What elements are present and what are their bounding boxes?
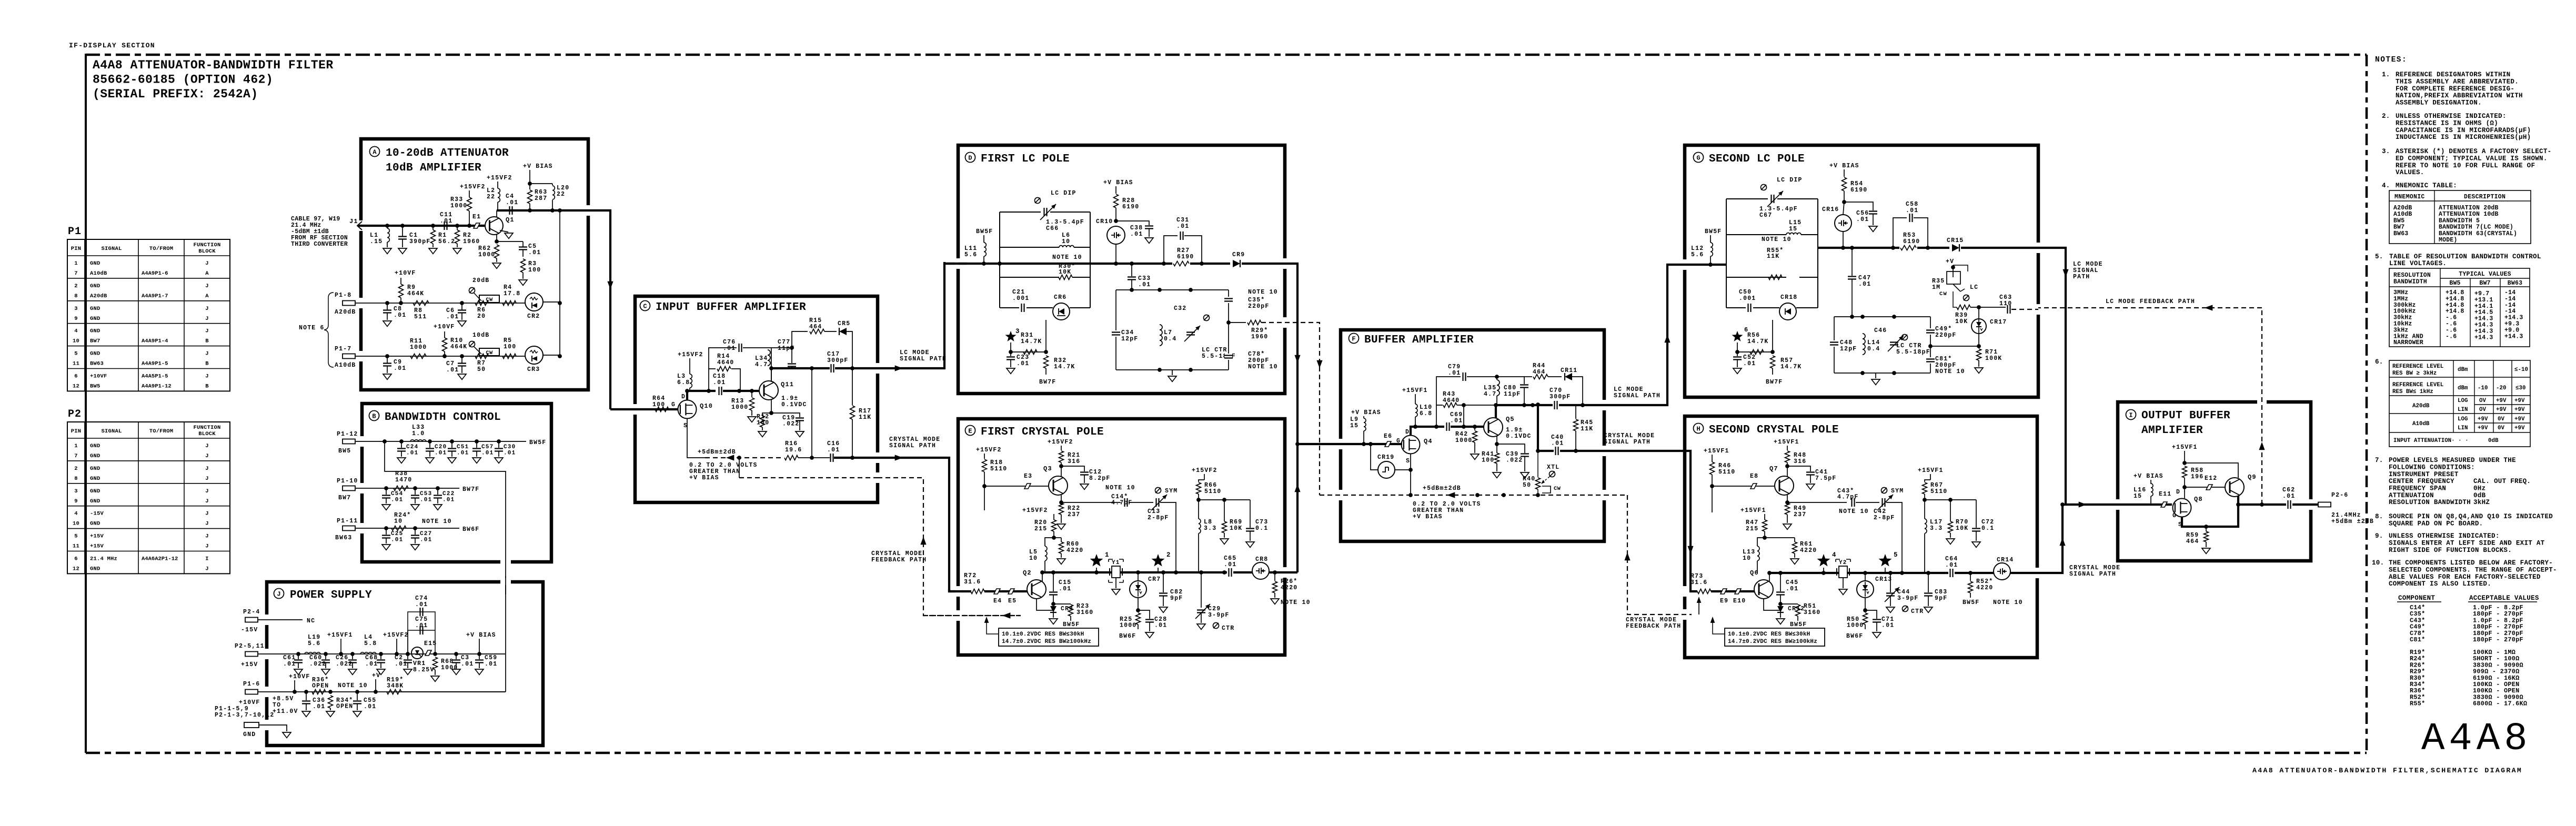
svg-text:9pF: 9pF <box>1935 595 1947 602</box>
svg-text:Y1: Y1 <box>1112 560 1120 566</box>
svg-text:.01: .01 <box>420 537 432 543</box>
diode CR15 <box>1949 244 1961 251</box>
svg-text:+9V: +9V <box>2496 398 2507 404</box>
resistor R67 <box>1930 474 1931 480</box>
capacitor C25 <box>384 526 388 530</box>
svg-text:4220: 4220 <box>1800 547 1817 554</box>
svg-text:GND: GND <box>90 316 100 322</box>
svg-text:100: 100 <box>757 420 769 427</box>
svg-text:.01: .01 <box>1450 418 1463 425</box>
svg-text:11K: 11K <box>1581 426 1593 432</box>
ground R2 <box>453 248 461 254</box>
svg-text:0.4: 0.4 <box>1867 346 1880 352</box>
svg-text:TABLE OF RESOLUTION BANDWIDTH: TABLE OF RESOLUTION BANDWIDTH CONTROL <box>2389 253 2541 260</box>
svg-text:1960: 1960 <box>1251 334 1268 340</box>
svg-text:-20: -20 <box>2496 385 2506 391</box>
dashed LC MODE FEEDBACK PATH <box>2038 307 2262 308</box>
capacitor C33 <box>1131 264 1132 276</box>
svg-text:NOTE 10: NOTE 10 <box>1248 364 1278 370</box>
svg-text:.01: .01 <box>481 450 494 457</box>
svg-text:+15VF2: +15VF2 <box>976 447 1002 454</box>
capacitor C21 <box>1022 304 1024 312</box>
svg-text:FOR COMPLETE REFERENCE DESIG-: FOR COMPLETE REFERENCE DESIG- <box>2396 85 2514 93</box>
Q10 source wire to feedback rail <box>687 419 705 458</box>
resistor R36* <box>312 690 326 694</box>
svg-text:.01: .01 <box>391 497 403 503</box>
function block I box <box>2118 402 2311 561</box>
svg-text:316: 316 <box>1794 458 1806 465</box>
inductor L20 <box>552 184 553 185</box>
svg-text:4640: 4640 <box>717 359 734 366</box>
wire BW63 row <box>356 528 459 529</box>
svg-text:BW63: BW63 <box>2393 230 2408 237</box>
capacitor C15 <box>1053 572 1054 591</box>
svg-text:J: J <box>205 566 209 572</box>
svg-text:P1-12: P1-12 <box>337 431 358 438</box>
svg-text:BW5: BW5 <box>2393 217 2404 224</box>
svg-text:J: J <box>205 328 209 335</box>
svg-text:10K: 10K <box>1230 525 1242 532</box>
svg-text:.01: .01 <box>457 450 469 457</box>
jumper E8 <box>1750 483 1757 489</box>
svg-text:J: J <box>205 453 209 459</box>
crystal tap vertical F <box>1537 405 1539 451</box>
svg-text:+15VF1: +15VF1 <box>2172 444 2198 451</box>
jumper E12 <box>2185 487 2225 488</box>
Q6 collector to line <box>1769 573 1770 581</box>
svg-text:SIGNAL PATH: SIGNAL PATH <box>1614 392 1661 399</box>
capacitor C64 series <box>1948 569 1955 577</box>
svg-text:FUNCTION: FUNCTION <box>193 242 220 248</box>
wire CR2 to bus <box>543 301 560 303</box>
block F title <box>1349 334 1359 344</box>
transistor Q9 <box>2225 478 2244 497</box>
svg-text:1000: 1000 <box>731 404 748 411</box>
potentiometer R7 <box>479 348 499 356</box>
value annotation box E <box>999 628 1099 646</box>
svg-text:SIGNAL: SIGNAL <box>101 246 122 252</box>
capacitor C2 <box>406 652 410 656</box>
svg-text:BANDWIDTH CONTROL: BANDWIDTH CONTROL <box>385 411 501 424</box>
wire LC path G to I <box>2038 248 2066 505</box>
jumpers E9 E10 <box>1711 590 1754 592</box>
capacitor C47 <box>1851 248 1853 276</box>
crystal exit rail F <box>1538 450 1604 452</box>
transistor Q8 FET <box>2173 499 2191 517</box>
svg-text:+14.3: +14.3 <box>2474 334 2493 341</box>
diode CR2 <box>525 293 543 311</box>
svg-text:SIGNALS ENTER AT LEFT SIDE AND: SIGNALS ENTER AT LEFT SIDE AND EXIT AT <box>2389 539 2545 547</box>
inductor L11 <box>983 235 984 243</box>
resistor R48 <box>1787 446 1788 450</box>
capacitor C40 series <box>1554 447 1560 455</box>
svg-text:5.6: 5.6 <box>964 251 977 258</box>
svg-text:11K: 11K <box>1767 253 1779 260</box>
wire crystal signal path C to E <box>878 458 963 591</box>
svg-text:PIN: PIN <box>71 428 82 435</box>
capacitor C59 <box>479 654 480 659</box>
svg-text:MNEMONIC: MNEMONIC <box>2394 194 2425 200</box>
svg-text:UNLESS OTHERWISE INDICATED:: UNLESS OTHERWISE INDICATED: <box>2389 532 2500 540</box>
svg-text:CR16: CR16 <box>1822 206 1839 213</box>
svg-text:LC DIP: LC DIP <box>1051 190 1076 197</box>
svg-text:LOG: LOG <box>2458 398 2468 404</box>
resistor R44 top rail <box>1524 376 1532 377</box>
svg-text:BW5F: BW5F <box>1063 621 1080 628</box>
block G title <box>1694 153 1704 163</box>
capacitor C80 <box>1495 375 1499 379</box>
inductor L17 <box>1924 500 1925 519</box>
wire R19 to bandwidth drop <box>401 691 506 692</box>
capacitor C70 series <box>1553 401 1559 409</box>
junction dots input line <box>385 224 389 228</box>
svg-text:.01: .01 <box>391 537 403 543</box>
capacitor C27 <box>413 526 417 530</box>
capacitor C55 <box>355 690 359 694</box>
svg-text:3-9pF: 3-9pF <box>1897 595 1919 602</box>
svg-text:-.6: -.6 <box>2446 333 2457 340</box>
block I title <box>2126 410 2136 420</box>
svg-text:0.1VDC: 0.1VDC <box>781 401 807 408</box>
wire crystal path into E redraw <box>949 589 971 591</box>
inductor L10 <box>1415 394 1416 404</box>
svg-text:464: 464 <box>2186 538 2199 545</box>
svg-text:THE COMPONENTS LISTED BELOW AR: THE COMPONENTS LISTED BELOW ARE FACTORY- <box>2389 559 2553 567</box>
svg-text:CR19: CR19 <box>1377 454 1394 461</box>
svg-text:CAL. OUT FREQ.: CAL. OUT FREQ. <box>2473 478 2531 485</box>
svg-text:BW7F: BW7F <box>462 486 479 493</box>
resistor R42 <box>1474 427 1475 430</box>
svg-text:5110: 5110 <box>1718 469 1735 476</box>
capacitor C38 <box>1116 221 1149 225</box>
svg-text:SIGNAL: SIGNAL <box>101 428 122 435</box>
outer dashed border top <box>86 54 2367 56</box>
svg-text:.01: .01 <box>420 497 432 503</box>
transistor Q5 <box>1484 418 1503 437</box>
svg-text:GND: GND <box>90 488 100 495</box>
svg-text:P1-7: P1-7 <box>335 346 351 352</box>
svg-text:10.: 10. <box>2372 559 2384 567</box>
trimmer capacitor C46 <box>1890 340 1898 347</box>
svg-text:BW6F: BW6F <box>462 526 479 533</box>
capacitor C18 <box>719 387 722 395</box>
resistor R12 <box>762 413 771 416</box>
inductor L12 <box>1710 235 1711 243</box>
resistor R3 <box>521 259 526 273</box>
svg-text:12pF: 12pF <box>1840 346 1857 352</box>
svg-text:CR17: CR17 <box>1990 319 2007 326</box>
svg-text:NOTE 10: NOTE 10 <box>422 518 452 525</box>
svg-text:C67: C67 <box>1759 212 1772 219</box>
svg-text:A4A9P1-7: A4A9P1-7 <box>142 293 168 299</box>
resistor R11 <box>410 354 426 359</box>
diode CR10 <box>1107 226 1125 244</box>
wire R18 to Q3 base <box>984 486 1048 487</box>
svg-text:GND: GND <box>243 731 256 738</box>
svg-text:464: 464 <box>1533 369 1545 376</box>
wire NC <box>258 619 303 620</box>
svg-text:4220: 4220 <box>1976 585 1993 591</box>
svg-text:A: A <box>205 293 209 299</box>
svg-text:LC: LC <box>1970 284 1978 291</box>
wire entry to resonator <box>1726 264 1727 265</box>
capacitor C54 <box>384 486 388 490</box>
svg-text:+9V: +9V <box>2514 425 2525 431</box>
transistor Q2 <box>1027 580 1046 599</box>
svg-text:F: F <box>1352 336 1355 343</box>
svg-text:A20dB: A20dB <box>335 309 356 316</box>
svg-text:C54: C54 <box>391 491 403 497</box>
resistor R15 top rail <box>792 331 808 348</box>
svg-text:P2-4: P2-4 <box>243 609 260 616</box>
svg-text:.01: .01 <box>827 447 840 454</box>
svg-text:464: 464 <box>809 324 822 330</box>
svg-text:A4A9P1-12: A4A9P1-12 <box>142 384 172 390</box>
transistor Q1 <box>480 225 486 227</box>
ground R1 <box>429 248 437 254</box>
svg-text:+9V: +9V <box>2478 425 2488 431</box>
svg-text:CENTER FREQUENCY: CENTER FREQUENCY <box>2389 478 2454 485</box>
svg-text:P1-6: P1-6 <box>243 681 260 688</box>
resistor R27 on line <box>1172 260 1190 267</box>
trimmer capacitor C13 <box>1129 502 1153 503</box>
wire input line <box>358 225 484 227</box>
resistor R10 <box>442 354 447 358</box>
inductor L6 <box>1059 246 1074 247</box>
svg-text:+9V: +9V <box>2514 398 2525 404</box>
jumper E15 <box>425 650 431 656</box>
jumper E11 <box>2161 502 2167 507</box>
bandwidth control drop wire <box>383 439 387 444</box>
svg-text:SIGNAL PATH: SIGNAL PATH <box>1604 439 1651 446</box>
capacitor C31 bypass <box>1164 236 1178 264</box>
svg-text:.022: .022 <box>309 661 326 668</box>
svg-text:H: H <box>1696 426 1700 433</box>
svg-text:CW: CW <box>1554 486 1561 492</box>
svg-text:≤30: ≤30 <box>2515 385 2525 391</box>
jumper E1 <box>474 223 480 228</box>
wire R46 to Q7 base <box>1712 486 1774 487</box>
svg-text:BW5F: BW5F <box>976 228 993 235</box>
svg-text:FEEDBACK PATH: FEEDBACK PATH <box>1626 623 1681 630</box>
svg-text:+V BIAS: +V BIAS <box>689 475 719 481</box>
svg-text:0V: 0V <box>2498 425 2504 431</box>
svg-text:Q1: Q1 <box>506 216 515 224</box>
svg-text:+V: +V <box>372 672 380 679</box>
svg-text:Q8: Q8 <box>2194 496 2203 503</box>
capacitor C60 <box>324 652 328 656</box>
svg-text:1.: 1. <box>2382 71 2390 78</box>
svg-text:A4A9P1-5: A4A9P1-5 <box>142 361 168 367</box>
svg-text:SOURCE PIN ON Q8,Q4,AND Q10 IS: SOURCE PIN ON Q8,Q4,AND Q10 IS INDICATED <box>2389 513 2553 520</box>
svg-text:3.: 3. <box>2382 148 2390 155</box>
svg-text:3kHZ: 3kHZ <box>2473 499 2490 506</box>
ground R3 <box>519 280 527 285</box>
svg-text:FREQUENCY SPAN: FREQUENCY SPAN <box>2389 485 2446 492</box>
Q2 emitter wire <box>1037 599 1053 610</box>
svg-text:CR2: CR2 <box>527 313 540 320</box>
attenuator bus vertical wire <box>559 210 560 356</box>
resistor R59 <box>2182 505 2238 527</box>
svg-text:0Hz: 0Hz <box>2473 485 2486 492</box>
svg-text:G: G <box>671 401 676 408</box>
block A output wire to C <box>588 210 610 409</box>
svg-text:E12: E12 <box>2205 475 2217 482</box>
svg-text:464K: 464K <box>407 290 424 297</box>
svg-text:220pF: 220pF <box>1935 332 1957 339</box>
svg-text:RES BW≤ 1kHz: RES BW≤ 1kHz <box>2392 389 2433 395</box>
svg-text:GND: GND <box>90 351 100 357</box>
svg-text:THIRD CONVERTER: THIRD CONVERTER <box>291 241 348 248</box>
svg-text:CR9: CR9 <box>1232 251 1245 258</box>
svg-text:8.2pF: 8.2pF <box>1089 475 1111 482</box>
svg-text:5: 5 <box>1894 551 1898 559</box>
svg-text:E1: E1 <box>472 214 481 220</box>
svg-text:+15VF1: +15VF1 <box>1402 387 1428 394</box>
function block A box <box>361 139 588 390</box>
inductor L35 <box>1497 380 1500 396</box>
svg-text:14.7K: 14.7K <box>1780 364 1802 370</box>
svg-text:C66: C66 <box>1046 225 1059 232</box>
wire crystal exit <box>834 457 878 459</box>
inductor L1 <box>387 228 389 242</box>
diode CR19 <box>1371 444 1378 470</box>
svg-text:RIGHT SIDE OF FUNCTION BLOCKS.: RIGHT SIDE OF FUNCTION BLOCKS. <box>2389 547 2512 554</box>
svg-text:+15VF2: +15VF2 <box>678 351 703 358</box>
svg-text:NARROWER: NARROWER <box>2393 339 2423 346</box>
svg-text:NOTE 10: NOTE 10 <box>1993 599 2023 606</box>
svg-text:5110: 5110 <box>1930 488 1947 495</box>
block D title <box>965 153 975 163</box>
svg-text:RES BW ≥ 3kHz: RES BW ≥ 3kHz <box>2392 370 2437 377</box>
svg-text:2-8pF: 2-8pF <box>1874 515 1895 521</box>
block B title <box>369 411 379 421</box>
svg-text:MODE): MODE) <box>2439 237 2458 244</box>
svg-text:A: A <box>205 270 209 277</box>
svg-text:BW5F: BW5F <box>1963 599 1979 606</box>
wire crystal path H to I <box>2037 505 2172 573</box>
svg-text:10dB AMPLIFIER: 10dB AMPLIFIER <box>386 162 481 174</box>
svg-text:E4: E4 <box>993 598 1002 605</box>
svg-text:14.7K: 14.7K <box>1054 364 1075 370</box>
svg-text:.01: .01 <box>485 661 497 668</box>
svg-text:REFERENCE LEVEL: REFERENCE LEVEL <box>2392 382 2443 388</box>
svg-text:BW7: BW7 <box>338 495 351 501</box>
resistor R68 <box>433 657 438 670</box>
svg-text:REFER TO NOTE 10 FOR FULL RANG: REFER TO NOTE 10 FOR FULL RANGE OF <box>2396 162 2535 169</box>
svg-text:+15VF2: +15VF2 <box>1048 439 1073 446</box>
svg-text:C30: C30 <box>504 444 516 450</box>
svg-text:GND: GND <box>90 453 100 459</box>
svg-text:ED COMPONENT; TYPICAL VALUE IS: ED COMPONENT; TYPICAL VALUE IS SHOWN. <box>2396 155 2548 162</box>
svg-text:SYM: SYM <box>1165 488 1178 495</box>
trimmer capacitor C32 <box>1187 330 1194 337</box>
capacitor C24 <box>399 439 404 444</box>
svg-text:+15VF2: +15VF2 <box>1022 507 1048 514</box>
svg-text:.01: .01 <box>415 601 428 608</box>
vertical junction wire <box>811 368 812 458</box>
capacitor C7 <box>460 354 464 358</box>
svg-text:J: J <box>205 351 209 357</box>
capacitor C39 <box>1497 444 1525 453</box>
svg-text:.01: .01 <box>435 450 447 457</box>
svg-text:GND: GND <box>90 328 100 335</box>
capacitor C57 <box>475 439 479 444</box>
svg-text:1000: 1000 <box>1455 437 1472 444</box>
svg-text:D: D <box>1405 429 1410 436</box>
svg-text:C: C <box>643 303 647 310</box>
arrow on output line <box>2079 501 2087 507</box>
svg-text:+V BIAS: +V BIAS <box>1103 179 1133 186</box>
svg-text:5.5-18pF: 5.5-18pF <box>1896 349 1930 356</box>
svg-text:.01: .01 <box>1017 360 1029 367</box>
svg-text:BW6F: BW6F <box>1846 633 1863 640</box>
dashed feedback path E to C <box>878 478 1022 616</box>
capacitor C83 <box>1928 573 1929 592</box>
resistor R41 <box>1496 444 1497 453</box>
svg-text:0.1VDC: 0.1VDC <box>1506 433 1532 440</box>
node C49 C81 junction <box>1928 344 1933 348</box>
resistor R46 <box>1712 455 1713 462</box>
resistor R53 on line <box>1899 244 1917 251</box>
function block F box <box>1341 330 1604 541</box>
svg-text:22: 22 <box>487 194 495 200</box>
svg-text:+5dBm±2dB: +5dBm±2dB <box>698 449 736 456</box>
svg-text:14.7±0.2VDC RES BW≥100kHz: 14.7±0.2VDC RES BW≥100kHz <box>1728 639 1817 645</box>
inductor L16 <box>2150 480 2151 484</box>
resistor R60 <box>1054 537 1061 538</box>
resistor R61 <box>1765 537 1795 538</box>
svg-text:RESOLUTION BANDWIDTH: RESOLUTION BANDWIDTH <box>2389 499 2471 506</box>
block J title <box>274 589 284 599</box>
diode CR9 <box>1230 260 1242 267</box>
value annotation box H <box>1725 628 1825 646</box>
svg-text:.01: .01 <box>504 450 516 457</box>
inductor L13 <box>1757 538 1765 546</box>
zener VR1 <box>411 647 423 659</box>
capacitor C1 <box>398 237 407 239</box>
svg-text:Y2: Y2 <box>1839 560 1847 566</box>
svg-text:E3: E3 <box>1024 473 1032 480</box>
svg-text:BW6F: BW6F <box>1119 633 1136 640</box>
lower resonator box G <box>1834 316 1930 317</box>
svg-text:OUTPUT BUFFER: OUTPUT BUFFER <box>2141 410 2230 422</box>
crystal Y1 <box>1109 559 1123 562</box>
svg-text:BW5F: BW5F <box>1705 228 1722 235</box>
wire C42 down to line <box>1886 502 1902 573</box>
svg-text:180pF - 270pF: 180pF - 270pF <box>2473 636 2523 643</box>
svg-text:4: 4 <box>1832 551 1837 559</box>
resistor R63 <box>529 184 530 189</box>
svg-text:VALUES.: VALUES. <box>2396 169 2424 176</box>
crystal feedback rail <box>705 457 784 458</box>
svg-text:1000: 1000 <box>1120 622 1136 629</box>
svg-text:CR6: CR6 <box>1054 294 1066 301</box>
resistor R66 <box>1204 474 1205 480</box>
svg-text:INSTRUMENT PRESET: INSTRUMENT PRESET <box>2389 471 2459 478</box>
svg-text:PIN: PIN <box>71 246 82 252</box>
ground C7 <box>458 374 466 379</box>
svg-text:COMPONENT IS ALSO LISTED.: COMPONENT IS ALSO LISTED. <box>2389 580 2491 588</box>
svg-text:POWER SUPPLY: POWER SUPPLY <box>290 589 372 601</box>
resistor R8 <box>413 301 429 306</box>
diode CR13 <box>1857 581 1874 598</box>
resistor R43 bypass <box>1436 405 1443 427</box>
svg-text:J: J <box>205 306 209 312</box>
resistor R70 <box>1925 499 1950 500</box>
svg-text:A20dB: A20dB <box>90 293 107 299</box>
resistor R71 <box>1977 344 1981 348</box>
